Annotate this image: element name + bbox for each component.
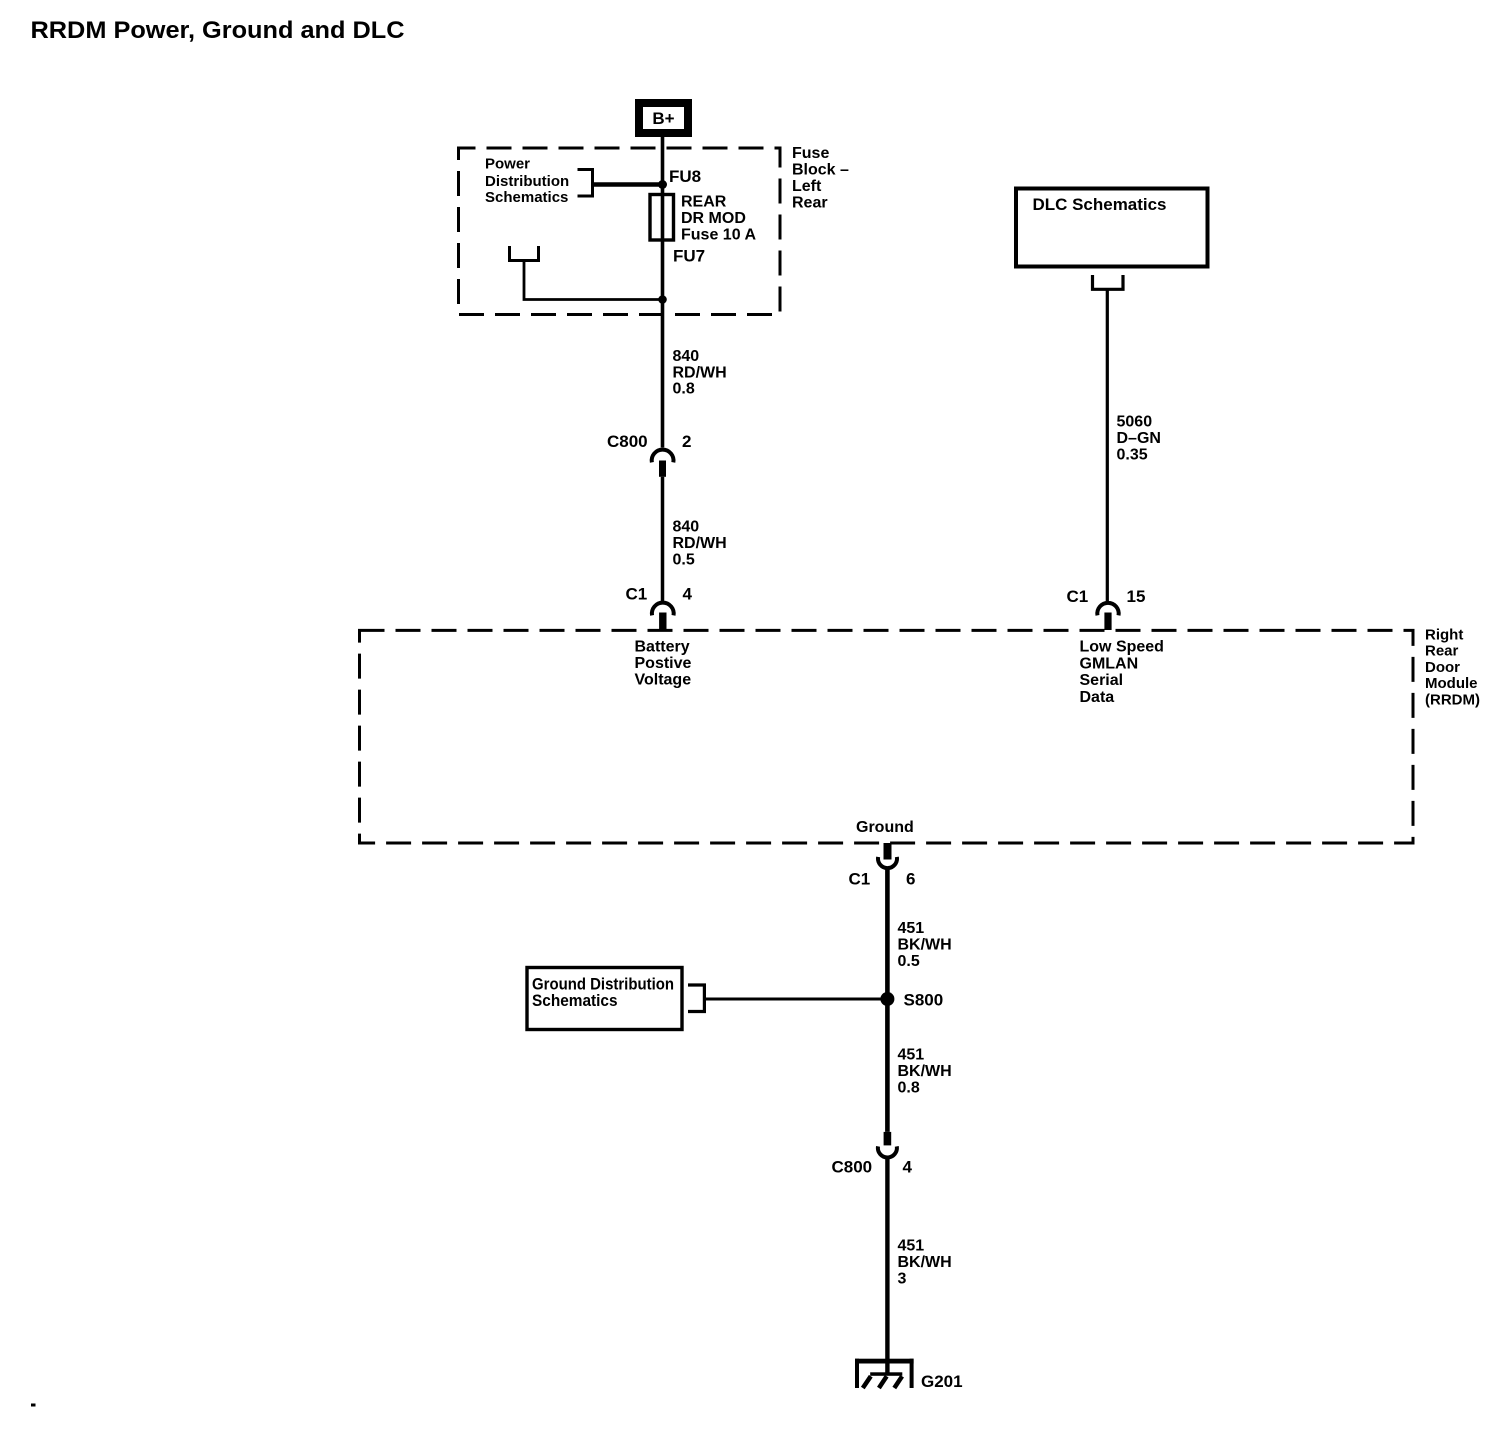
svg-text:Block –: Block –: [792, 162, 849, 179]
svg-text:0.35: 0.35: [1117, 447, 1148, 464]
svg-text:DR MOD: DR MOD: [681, 210, 746, 227]
svg-text:Schematics: Schematics: [532, 991, 618, 1010]
title: RRDM Power, Ground and DLC: [31, 17, 405, 44]
connector C800 pin 4 (inverted): [832, 1132, 913, 1177]
connector C1 pin 6 (ground output, inverted): [849, 843, 916, 889]
fuse FU7 (REAR DR MOD Fuse 10 A): [650, 195, 674, 241]
svg-text:Module: Module: [1425, 675, 1478, 692]
wire: S800 to C800-4, 451 BK/WH 0.8: [885, 999, 890, 1132]
DLC Schematics box: [1016, 189, 1208, 267]
svg-text:FU7: FU7: [673, 247, 705, 266]
svg-text:Rear: Rear: [1425, 643, 1459, 660]
svg-text:Data: Data: [1080, 689, 1115, 706]
svg-text:(RRDM): (RRDM): [1425, 691, 1480, 708]
continuation bracket inside fuse block: [510, 246, 539, 261]
bracket: ground distribution schematics reference: [688, 985, 704, 1012]
svg-text:451: 451: [898, 1238, 925, 1255]
stray dot bottom left: [31, 1404, 36, 1407]
svg-text:BK/WH: BK/WH: [898, 1063, 952, 1080]
label: Right Rear Door Module (RRDM): [1425, 627, 1480, 709]
svg-text:Ground: Ground: [856, 819, 914, 836]
svg-text:S800: S800: [904, 991, 944, 1010]
wire: DLC to C1-15, 5060 D-GN 0.35: [1106, 289, 1109, 601]
wire: C1-6 to S800, 451 BK/WH 0.5: [885, 867, 890, 999]
wire: bracket to S800: [704, 998, 884, 1001]
label: wire 840 RD/WH 0.5: [673, 519, 727, 569]
svg-text:Fuse: Fuse: [792, 145, 829, 162]
continuation bracket below DLC box: [1093, 275, 1124, 289]
svg-text:RRDM Power, Ground and DLC: RRDM Power, Ground and DLC: [31, 17, 405, 44]
label: Battery Postive Voltage (RRDM pin function): [635, 639, 692, 689]
svg-text:0.5: 0.5: [673, 552, 695, 569]
label: wire 451 BK/WH 0.8: [898, 1047, 952, 1097]
svg-text:0.8: 0.8: [673, 381, 695, 398]
label: wire 5060 D-GN 0.35: [1117, 414, 1161, 464]
node: fuse output junction dot: [658, 295, 667, 304]
wire: C800-4 to G201, 451 BK/WH 3: [885, 1157, 889, 1376]
svg-text:0.8: 0.8: [898, 1080, 920, 1097]
wire: C800-2 to C1-4, 840 RD/WH 0.5: [661, 477, 665, 601]
label: Fuse Block - Left Rear: [792, 145, 849, 212]
svg-text:4: 4: [683, 585, 693, 604]
svg-text:15: 15: [1127, 587, 1146, 606]
connector C1 pin 4: [626, 585, 693, 631]
label: Power Distribution Schematics: [485, 156, 569, 207]
connector C800 pin 2: [607, 432, 691, 477]
label: Ground (RRDM pin function): [856, 819, 914, 836]
ground G201 symbol: [855, 1359, 963, 1391]
svg-text:Power: Power: [485, 156, 530, 173]
svg-text:G201: G201: [921, 1372, 963, 1391]
wire: bracket down and right to fuse output node: [524, 261, 660, 300]
svg-text:840: 840: [673, 348, 700, 365]
svg-text:6: 6: [906, 870, 915, 889]
svg-text:840: 840: [673, 519, 700, 536]
svg-text:Voltage: Voltage: [635, 672, 692, 689]
svg-text:5060: 5060: [1117, 414, 1153, 431]
connector C1 pin 15: [1067, 587, 1146, 630]
svg-text:D–GN: D–GN: [1117, 430, 1161, 447]
splice S800: [880, 991, 943, 1010]
label: REAR DR MOD Fuse 10 A: [681, 194, 756, 244]
fuse block dashed box (Fuse Block - Left Rear): [459, 148, 781, 315]
svg-text:BK/WH: BK/WH: [898, 1254, 952, 1271]
svg-text:Low Speed: Low Speed: [1080, 639, 1164, 656]
svg-text:0.5: 0.5: [898, 953, 920, 970]
svg-text:Distribution: Distribution: [485, 173, 569, 190]
svg-text:Door: Door: [1425, 659, 1460, 676]
svg-text:FU8: FU8: [669, 167, 701, 186]
svg-text:C800: C800: [832, 1158, 873, 1177]
svg-text:3: 3: [898, 1271, 907, 1288]
wire: bracket to FU8 node: [593, 182, 663, 187]
node FU8 junction dot: [658, 180, 667, 189]
svg-text:Rear: Rear: [792, 195, 828, 212]
svg-text:BK/WH: BK/WH: [898, 937, 952, 954]
svg-text:2: 2: [682, 432, 691, 451]
Ground Distribution Schematics box: [527, 968, 682, 1030]
B+ battery positive symbol: [639, 103, 688, 133]
svg-text:451: 451: [898, 1047, 925, 1064]
label FU7: [673, 247, 705, 266]
svg-text:Right: Right: [1425, 627, 1463, 644]
svg-text:Serial: Serial: [1080, 672, 1124, 689]
svg-text:Postive: Postive: [635, 655, 692, 672]
svg-text:Schematics: Schematics: [485, 189, 568, 206]
RRDM module dashed box: [360, 630, 1414, 843]
svg-text:REAR: REAR: [681, 194, 727, 211]
svg-text:B+: B+: [652, 109, 674, 128]
svg-text:C1: C1: [1067, 587, 1089, 606]
wire: B+ down through fuse to RRDM C1-4: [661, 137, 665, 448]
svg-text:Fuse 10 A: Fuse 10 A: [681, 227, 756, 244]
label: wire 840 RD/WH 0.8: [673, 348, 727, 398]
svg-text:Left: Left: [792, 178, 822, 195]
label: wire 451 BK/WH 0.5: [898, 920, 952, 970]
svg-text:C800: C800: [607, 432, 648, 451]
label: wire 451 BK/WH 3: [898, 1238, 952, 1288]
svg-text:RD/WH: RD/WH: [673, 364, 727, 381]
svg-text:C1: C1: [849, 870, 871, 889]
svg-text:RD/WH: RD/WH: [673, 535, 727, 552]
label: Low Speed GMLAN Serial Data (RRDM pin function): [1080, 639, 1164, 706]
label FU8: [669, 167, 701, 186]
svg-text:4: 4: [903, 1158, 913, 1177]
svg-text:Battery: Battery: [635, 639, 690, 656]
svg-text:GMLAN: GMLAN: [1080, 655, 1139, 672]
svg-text:C1: C1: [626, 585, 648, 604]
bracket: power distribution schematics reference: [578, 170, 593, 197]
svg-text:DLC Schematics: DLC Schematics: [1033, 195, 1167, 214]
svg-text:451: 451: [898, 920, 925, 937]
